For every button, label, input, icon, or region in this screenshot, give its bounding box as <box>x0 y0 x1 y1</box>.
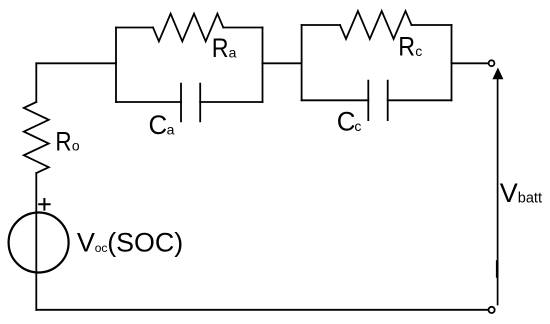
RC box 2 top-right segment <box>412 24 452 26</box>
svg-text:c: c <box>415 43 422 59</box>
svg-text:batt: batt <box>518 190 542 206</box>
svg-text:a: a <box>229 45 237 61</box>
RC box 1 right side <box>262 28 264 103</box>
svg-text:oc: oc <box>95 241 108 255</box>
RC box 1 bottom-right segment <box>200 101 262 103</box>
svg-text:V: V <box>77 228 95 258</box>
svg-text:R: R <box>398 32 415 62</box>
svg-text:o: o <box>72 138 80 154</box>
svg-text:c: c <box>354 118 361 134</box>
wire between boxes <box>263 62 302 64</box>
RC box 2 right side <box>451 25 453 100</box>
resistor Ra zigzag <box>153 14 223 42</box>
wire bottom horizontal <box>36 309 488 311</box>
svg-text:R: R <box>55 126 71 156</box>
wire left vertical upper stub <box>35 63 37 102</box>
wire box2 to top terminal <box>452 62 488 64</box>
voltage source Voc circle <box>9 213 69 273</box>
RC box 1 bottom-left segment <box>116 101 181 103</box>
svg-text:V: V <box>500 178 518 208</box>
resistor R0 zigzag <box>24 102 49 173</box>
terminal bottom circle <box>489 307 495 313</box>
Vbatt arrow shaft <box>497 78 499 305</box>
RC box 2 left side <box>301 25 303 100</box>
resistor Rc zigzag <box>340 11 412 39</box>
svg-text:C: C <box>337 107 356 137</box>
svg-text:a: a <box>167 121 175 137</box>
plus sign <box>39 199 49 210</box>
RC box 2 bottom-right segment <box>388 99 452 101</box>
wire top-left horizontal <box>36 62 116 64</box>
RC box 2 bottom-left segment <box>302 99 369 101</box>
RC box 1 top-left segment <box>116 27 153 29</box>
capacitor Ca plates <box>181 84 200 122</box>
svg-text:R: R <box>212 33 229 63</box>
RC box 1 left side <box>115 28 117 103</box>
svg-text:(SOC): (SOC) <box>107 228 183 258</box>
terminal top circle <box>489 60 495 66</box>
Vbatt arrow head <box>492 68 503 80</box>
Vbatt arrow shaft thick overlap segment <box>496 262 499 277</box>
wire left vertical lower <box>35 173 37 310</box>
svg-text:C: C <box>149 110 168 140</box>
capacitor Cc plates <box>368 81 387 121</box>
RC box 2 top-left segment <box>302 24 340 26</box>
RC box 1 top-right segment <box>223 27 262 29</box>
